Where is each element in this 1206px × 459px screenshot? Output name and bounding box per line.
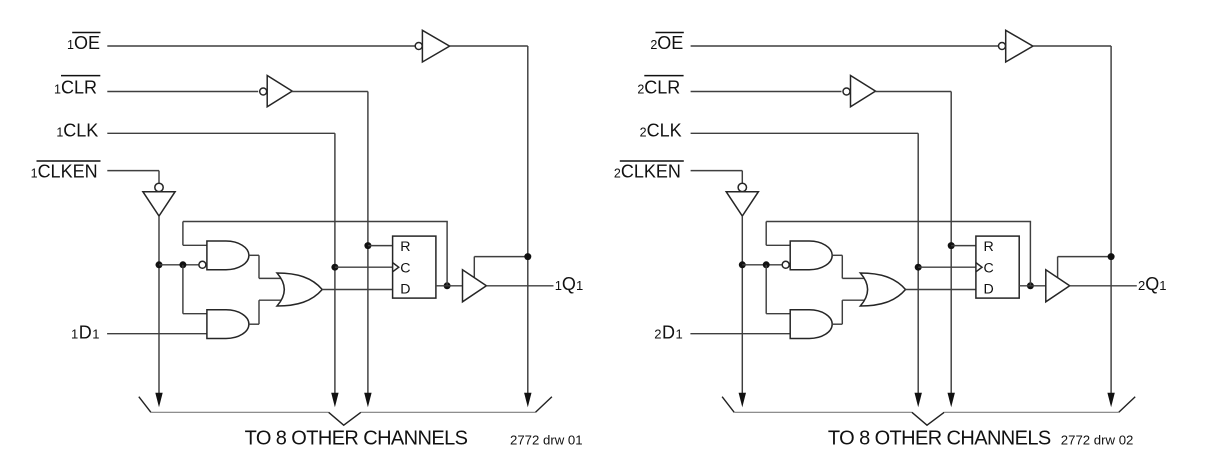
wire Q feedback across — [766, 221, 1031, 223]
bracket to 8 other channels (drw 02) — [722, 397, 1135, 426]
svg-text:R: R — [984, 239, 994, 255]
svg-text:1Q1: 1Q1 — [555, 274, 583, 294]
and-gate G12 (data gate) — [207, 310, 249, 339]
junction Q feedback — [444, 282, 451, 289]
svg-text:1CLKEN: 1CLKEN — [31, 162, 98, 182]
svg-text:C: C — [400, 260, 410, 276]
junction 2CLKEN rail to gates — [739, 261, 746, 268]
and-gate G21 (enable gate, inverted input) — [782, 241, 832, 270]
wire tri-state enable — [474, 257, 528, 278]
svg-text:D: D — [400, 282, 410, 298]
svg-text:1CLK: 1CLK — [56, 120, 98, 140]
svg-text:2CLKEN: 2CLKEN — [614, 162, 681, 182]
svg-text:TO 8 OTHER CHANNELS: TO 8 OTHER CHANNELS — [245, 427, 468, 449]
node 2Q1 label — [1138, 274, 1166, 294]
bracket to 8 other channels (drw 01) — [139, 397, 552, 426]
and-gate G22 (data gate) — [790, 310, 832, 339]
node 2CLR label — [637, 76, 683, 98]
node 1CLKEN label — [31, 161, 101, 182]
svg-text:2CLR: 2CLR — [637, 77, 680, 97]
node 2CLK label — [640, 120, 682, 140]
wire 2CLKEN vertical rail — [741, 216, 743, 397]
svg-text:2Q1: 2Q1 — [1138, 274, 1166, 294]
arrow 2CLKEN rail to other channels — [739, 393, 746, 408]
wire OR output to D — [906, 289, 976, 291]
inverter U2c (2CLKEN buffer) — [726, 183, 758, 216]
wire OR output to D — [322, 289, 392, 291]
junction gate branch — [179, 261, 186, 268]
wire Q feedback down to AND1 — [766, 222, 791, 246]
junction 2CLK to C — [915, 264, 922, 271]
svg-text:2D1: 2D1 — [654, 322, 683, 342]
junction 1CLR to R — [364, 242, 371, 249]
wire Q output — [1019, 285, 1046, 287]
wire Q feedback up — [446, 222, 448, 286]
wire 1CLK vertical rail — [334, 133, 336, 396]
wire Q feedback down to AND1 — [183, 222, 208, 246]
or-gate G13 (D mux) — [277, 273, 322, 306]
junction enable on 2OE rail — [1108, 253, 1115, 260]
wire 2OE input — [691, 45, 999, 47]
wire 2OE inverter output — [1033, 45, 1111, 47]
wire G11 output to OR — [249, 255, 282, 278]
wire 1CLKEN input — [107, 171, 159, 184]
svg-text:2772 drw 02: 2772 drw 02 — [1061, 433, 1134, 448]
node 2D1 label — [654, 322, 683, 342]
wire Q feedback across — [183, 221, 448, 223]
pin label R (FF1 reset) — [400, 239, 410, 255]
inverter U2a (2OE buffer) — [999, 30, 1033, 62]
wire 2CLR input — [691, 91, 842, 93]
pin label D (FF1 data) — [400, 282, 410, 298]
wire 2CLK vertical rail — [917, 133, 919, 396]
node 2CLKEN label — [614, 161, 684, 182]
node 2OE label — [650, 33, 683, 54]
junction Q feedback — [1027, 282, 1034, 289]
arrow 2OE rail to other channels — [1107, 393, 1114, 408]
node 1OE label — [67, 33, 100, 54]
wire G21 output to OR — [832, 255, 865, 278]
wire Q feedback up — [1029, 222, 1031, 286]
node 1CLK label — [56, 120, 98, 140]
svg-text:2CLK: 2CLK — [640, 120, 682, 140]
svg-text:1CLR: 1CLR — [54, 77, 97, 97]
wire AND1 inverted input — [159, 264, 199, 266]
wire 2CLR inverter output — [875, 91, 951, 93]
flip-flop FF1 body — [393, 236, 436, 298]
svg-text:TO 8 OTHER CHANNELS: TO 8 OTHER CHANNELS — [828, 427, 1051, 449]
arrow 1CLK rail to other channels — [331, 393, 338, 408]
wire 1CLR vertical rail — [367, 92, 369, 397]
wire 1D1 input — [107, 333, 207, 335]
wire C input — [918, 266, 976, 268]
wire 1CLR inverter output — [292, 91, 368, 93]
buffer U2d (tri-state output) — [1046, 270, 1070, 302]
arrow 1CLR rail to other channels — [364, 393, 371, 408]
text TO 8 OTHER CHANNELS — [245, 427, 468, 449]
node 1Q1 label — [555, 274, 583, 294]
svg-text:1OE: 1OE — [67, 33, 100, 53]
wire tri-state enable — [1058, 257, 1112, 278]
wire 1OE input — [107, 45, 415, 47]
and-gate G11 (enable gate, inverted input) — [199, 241, 249, 270]
arrow 2CLK rail to other channels — [915, 393, 922, 408]
node 1CLR label — [54, 76, 100, 98]
wire C input — [335, 266, 393, 268]
buffer U1d (tri-state output) — [463, 270, 487, 302]
wire 1OE vertical rail — [527, 46, 529, 397]
wire 1CLR input — [107, 91, 258, 93]
wire 1OE inverter output — [450, 45, 528, 47]
wire 1Q1 output — [486, 285, 553, 287]
inverter U1a (1OE buffer) — [415, 30, 449, 62]
junction gate branch — [763, 261, 770, 268]
wire 1CLK input — [107, 132, 335, 134]
inverter U1b (1CLR buffer) — [260, 76, 293, 107]
junction enable on 1OE rail — [524, 253, 531, 260]
junction 1CLKEN rail to gates — [156, 261, 163, 268]
junction 1CLK to C — [331, 264, 338, 271]
svg-text:2OE: 2OE — [650, 33, 683, 53]
svg-text:2772 drw 01: 2772 drw 01 — [510, 433, 583, 448]
pin label C (FF1 clock) — [400, 260, 410, 276]
inverter U1c (1CLKEN buffer) — [143, 183, 175, 216]
wire G12 output to OR — [249, 300, 282, 324]
pin label D (FF2 data) — [984, 282, 994, 298]
wire G22 output to OR — [832, 300, 865, 324]
wire 2CLKEN input — [691, 171, 743, 184]
or-gate G23 (D mux) — [860, 273, 905, 306]
svg-text:C: C — [984, 260, 994, 276]
wire branch down to AND2 — [183, 265, 208, 314]
pin label C (FF2 clock) — [984, 260, 994, 276]
arrow 1CLKEN rail to other channels — [155, 393, 162, 408]
text 2772 drw 02 — [1061, 433, 1134, 448]
svg-text:R: R — [400, 239, 410, 255]
text TO 8 OTHER CHANNELS — [828, 427, 1051, 449]
wire 2Q1 output — [1070, 285, 1137, 287]
node 1D1 label — [71, 322, 100, 342]
arrow 1OE rail to other channels — [524, 393, 531, 408]
clock edge wedge FF1 — [393, 263, 399, 272]
junction 2CLR to R — [948, 242, 955, 249]
wire R input — [951, 245, 976, 247]
wire branch down to AND2 — [766, 265, 791, 314]
text 2772 drw 01 — [510, 433, 583, 448]
wire R input — [368, 245, 393, 247]
wire 2D1 input — [690, 333, 790, 335]
wire 2OE vertical rail — [1110, 46, 1112, 397]
wire 1CLKEN vertical rail — [158, 216, 160, 397]
clock edge wedge FF2 — [976, 263, 982, 272]
wire Q output — [436, 285, 463, 287]
wire 2CLR vertical rail — [950, 92, 952, 397]
svg-text:1D1: 1D1 — [71, 322, 100, 342]
wire 2CLK input — [691, 132, 919, 134]
flip-flop FF2 body — [976, 236, 1019, 298]
arrow 2CLR rail to other channels — [948, 393, 955, 408]
inverter U2b (2CLR buffer) — [843, 76, 876, 107]
wire AND1 inverted input — [742, 264, 782, 266]
pin label R (FF2 reset) — [984, 239, 994, 255]
svg-text:D: D — [984, 282, 994, 298]
